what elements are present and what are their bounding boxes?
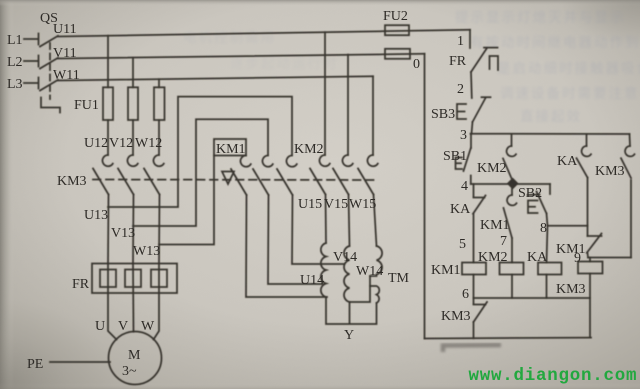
svg-text:3~: 3~ — [122, 364, 137, 379]
svg-text:U: U — [95, 319, 105, 334]
svg-text:8: 8 — [540, 221, 547, 236]
label KM2 mid — [294, 142, 324, 157]
svg-text:U13: U13 — [84, 208, 108, 223]
wire U11 dropper to FU1-1 — [107, 36, 109, 88]
svg-text:KM3: KM3 — [556, 282, 586, 297]
label W11 — [53, 68, 80, 83]
label V15 — [324, 197, 348, 212]
contactor KM1 main contact 3 — [277, 156, 297, 196]
wire bottom rail — [425, 337, 592, 340]
coil KA — [538, 263, 562, 275]
wire star point Y — [326, 297, 377, 324]
label wire 7 — [500, 234, 507, 249]
svg-text:KM3: KM3 — [595, 164, 625, 179]
svg-text:电机控制需用: 电机控制需用 — [183, 30, 276, 45]
label W13 — [133, 244, 160, 259]
svg-text:FU1: FU1 — [74, 98, 99, 113]
wire W to motor — [154, 264, 160, 340]
svg-text:V11: V11 — [53, 46, 77, 61]
svg-text:W: W — [141, 319, 155, 334]
wire U12 — [107, 120, 109, 155]
label L3 — [7, 77, 23, 92]
svg-text:U14: U14 — [300, 273, 324, 288]
label wire 6 — [462, 287, 469, 302]
label wire 3 — [460, 128, 467, 143]
fuse FU1-1 — [103, 87, 113, 120]
svg-text:KM2: KM2 — [477, 161, 507, 176]
wire node 4 rail — [471, 183, 550, 185]
wire 0 rail — [424, 54, 426, 339]
wire KM1 contact2 to TM tap U14 — [268, 195, 322, 284]
label wire 5 — [459, 237, 466, 252]
wire W11 dropper to FU1-3 — [158, 79, 160, 87]
label M 3~ motor — [122, 348, 141, 379]
wire V12 — [132, 120, 134, 155]
svg-text:V15: V15 — [324, 197, 348, 212]
wire U15 — [325, 195, 328, 244]
wire V11 dropper to KM2 contact2 — [347, 55, 349, 155]
contactor KM2 aux contact NO — [503, 134, 516, 183]
transformer TM winding W14 — [370, 246, 382, 303]
svg-text:2: 2 — [457, 82, 464, 97]
svg-text:U15: U15 — [298, 197, 322, 212]
svg-text:9: 9 — [574, 251, 581, 266]
wire W13 column — [158, 195, 161, 264]
wire V13 column — [132, 195, 135, 264]
fuse FU2-2 — [385, 49, 410, 59]
label KA NC — [450, 202, 471, 217]
svg-text:SB1: SB1 — [443, 149, 467, 164]
transformer TM winding U14 — [321, 243, 326, 297]
contactor KM2 main contact 2 — [333, 155, 353, 195]
wire V11 dropper to FU1-2 — [132, 58, 134, 88]
label KM1 NC right — [556, 242, 586, 257]
wire 1 riser — [469, 30, 471, 48]
wire U11 dropper to KM2 contact1 — [324, 32, 326, 155]
svg-text:KM1: KM1 — [480, 218, 510, 233]
svg-text:4: 4 — [461, 179, 468, 194]
contactor KM1 main contact 1 — [231, 156, 251, 196]
wire V to motor — [132, 264, 135, 332]
svg-text:TM: TM — [388, 271, 410, 286]
label V — [118, 319, 128, 334]
label W14 — [356, 264, 383, 279]
svg-text:V: V — [118, 319, 128, 334]
svg-text:KM2: KM2 — [478, 250, 508, 265]
pushbutton SB1 NO start — [456, 134, 472, 184]
label wire 0 — [413, 57, 420, 72]
wire W11 corner dropper to KM2 contact3 — [372, 76, 374, 155]
svg-text:SB2: SB2 — [518, 186, 542, 201]
label KM1 box — [216, 142, 246, 157]
svg-text:L2: L2 — [7, 55, 23, 70]
wire U to motor — [108, 264, 117, 340]
wire to node 3 — [472, 122, 473, 134]
label KM1 coil — [431, 263, 461, 278]
svg-text:直接起效: 直接起效 — [520, 108, 582, 124]
wire V13 branch to KM1 — [133, 119, 268, 226]
label V13 — [111, 226, 135, 241]
switch QS pole 3 — [40, 80, 58, 91]
dashed linkage line KM3 KM1 KM2 — [93, 179, 378, 182]
wire node 8 — [547, 226, 588, 263]
coil KM3 — [578, 262, 603, 274]
wire KM3 coil to rail 0 — [589, 274, 591, 338]
relay KA NO contact — [577, 134, 592, 236]
svg-text:KM2: KM2 — [294, 142, 324, 157]
label U — [95, 319, 105, 334]
junction dot node 4 — [508, 179, 517, 188]
contactor KM1 NC interlock contact — [587, 234, 602, 258]
contactor KM1 main contact 2 — [253, 156, 273, 196]
svg-text:W11: W11 — [53, 68, 80, 83]
svg-text:KA: KA — [557, 154, 578, 169]
svg-text:U11: U11 — [53, 22, 77, 37]
label V12 — [109, 136, 133, 151]
label V14 — [333, 250, 357, 265]
svg-text:KA: KA — [450, 202, 471, 217]
svg-text:V12: V12 — [109, 136, 133, 151]
wire PE lead — [50, 361, 110, 363]
svg-text:3: 3 — [460, 128, 467, 143]
label KM1 aux — [480, 218, 510, 233]
svg-text:W12: W12 — [135, 136, 162, 151]
svg-text:0: 0 — [413, 57, 420, 72]
wire L2 lead — [24, 56, 39, 67]
svg-text:V14: V14 — [333, 250, 357, 265]
svg-text:逐步起动运行时: 逐步起动运行时 — [230, 56, 339, 71]
switch QS pole 2 — [40, 58, 58, 69]
pushbutton SB3 NC stop — [457, 97, 491, 122]
svg-text:KM3: KM3 — [441, 309, 471, 324]
label TM — [388, 271, 410, 286]
contactor KM1 label box — [214, 139, 246, 156]
wire node 2 — [470, 72, 473, 98]
wire U13 branch to KM1 — [108, 97, 292, 207]
svg-text:7: 7 — [500, 234, 507, 249]
svg-text:U12: U12 — [84, 136, 108, 151]
label U12 — [84, 136, 108, 151]
svg-text:KM1: KM1 — [431, 263, 461, 278]
label FU1 — [74, 98, 99, 113]
fuse FU2-1 — [385, 25, 409, 35]
svg-text:1: 1 — [457, 34, 464, 49]
contactor KM3 main contact 3 — [144, 155, 164, 195]
switch QS linkage dashed — [41, 43, 60, 113]
wire W13 branch to KM1 — [159, 156, 214, 245]
wire node 9 — [588, 258, 631, 262]
bleed-through text from reverse page — [183, 9, 640, 124]
label KM2 coil — [478, 250, 508, 265]
wire V14 bottom to W14 tap — [350, 276, 371, 302]
relay KA NC contact — [473, 184, 486, 263]
label FU2 — [383, 9, 408, 24]
fuse FU1-2 — [128, 87, 138, 120]
wire V11 phase line — [58, 54, 425, 59]
contactor KM2 main contact 3 — [358, 155, 378, 195]
label W — [141, 319, 155, 334]
label wire 8 — [540, 221, 547, 236]
svg-text:V13: V13 — [111, 226, 135, 241]
fuse FU1-3 — [154, 87, 165, 120]
label SB1 — [443, 149, 467, 164]
label wire 9 — [574, 251, 581, 266]
wire KM1 contact1 to TM tap U14 lower — [246, 195, 327, 297]
thermal relay FR element 2 — [125, 270, 141, 288]
label SB2 — [518, 186, 542, 201]
svg-text:M: M — [128, 348, 141, 363]
label PE — [27, 357, 43, 372]
label SB3 — [431, 107, 455, 122]
label KM3 coil — [556, 282, 586, 297]
svg-text:W14: W14 — [356, 264, 383, 279]
label KM3 main — [57, 174, 87, 189]
transformer TM winding V14 — [344, 246, 350, 302]
wire L1 lead — [24, 34, 39, 45]
svg-text:W15: W15 — [349, 197, 376, 212]
contactor KM3 NO contact right — [621, 134, 635, 258]
wire KM1 contact3 to TM tap V14 — [292, 195, 344, 264]
label L2 — [7, 55, 23, 70]
switch QS pole 1 — [40, 36, 58, 47]
wire L3 lead — [24, 78, 39, 89]
svg-text:Y: Y — [344, 328, 354, 343]
label U15 — [298, 197, 322, 212]
svg-text:W13: W13 — [133, 244, 160, 259]
wire U13 column — [107, 195, 110, 264]
svg-text:KM1: KM1 — [216, 142, 246, 157]
svg-text:L1: L1 — [7, 33, 23, 48]
label W12 — [135, 136, 162, 151]
wire W12 — [158, 120, 160, 155]
wire V15 — [349, 195, 350, 247]
thermal relay FR element 3 — [151, 270, 167, 288]
svg-text:www.diangon.com: www.diangon.com — [469, 366, 638, 386]
label V11 — [53, 46, 77, 61]
wire W15 — [374, 195, 377, 247]
wire W11 phase line — [58, 76, 373, 80]
label U14 — [300, 273, 324, 288]
label KM2 aux — [477, 161, 507, 176]
svg-text:5: 5 — [459, 237, 466, 252]
svg-text:调速设备时需要注意: 调速设备时需要注意 — [500, 85, 640, 101]
svg-text:FR: FR — [449, 54, 467, 69]
svg-text:KA: KA — [527, 250, 548, 265]
label wire 4 — [461, 179, 468, 194]
label Y — [344, 328, 354, 343]
label KA right — [557, 154, 578, 169]
coil KM2 — [500, 263, 524, 275]
thermal relay FR element 1 — [100, 270, 116, 288]
svg-text:KM3: KM3 — [57, 174, 87, 189]
svg-text:6: 6 — [462, 287, 469, 302]
coil KM1 — [462, 263, 486, 275]
svg-text:FR: FR — [72, 277, 90, 292]
label FR main — [72, 277, 90, 292]
label L1 — [7, 33, 23, 48]
label U13 — [84, 208, 108, 223]
page shadow artifact — [443, 345, 501, 352]
label KA coil — [527, 250, 548, 265]
contactor KM3 NC interlock bottom — [474, 298, 488, 338]
svg-text:PE: PE — [27, 357, 43, 372]
wire U11 phase line — [58, 30, 470, 37]
label W15 — [349, 197, 376, 212]
label wire 1 — [457, 34, 464, 49]
label KM3 NC bottom — [441, 309, 471, 324]
svg-text:SB3: SB3 — [431, 107, 455, 122]
contactor KM3 main contact 2 — [118, 155, 138, 195]
label QS — [40, 11, 58, 26]
wire node 6 bus — [474, 275, 591, 299]
thermal relay FR heater box — [92, 264, 177, 294]
wire node 3 rail — [471, 133, 630, 135]
pushbutton SB2 NC — [528, 184, 551, 226]
svg-text:KM1: KM1 — [556, 242, 586, 257]
svg-text:提示显示灯熄灭并与显示: 提示显示灯熄灭并与显示 — [455, 9, 626, 25]
thermal relay FR NC contact — [471, 48, 498, 72]
contactor KM3 main contact 1 — [93, 155, 113, 195]
svg-text:FU2: FU2 — [383, 9, 408, 24]
label U11 — [53, 22, 77, 37]
svg-text:L3: L3 — [7, 77, 23, 92]
motor M circle — [109, 332, 162, 385]
label KM3 right — [595, 164, 625, 179]
svg-text:是启动细时接触器吸合: 是启动细时接触器吸合 — [497, 60, 640, 76]
contactor KM2 main contact 1 — [310, 155, 330, 195]
operator triangle of KM1 — [222, 172, 234, 185]
contactor KM1 aux contact NO self-hold — [504, 184, 517, 263]
label wire 2 — [457, 82, 464, 97]
label FR control — [449, 54, 467, 69]
